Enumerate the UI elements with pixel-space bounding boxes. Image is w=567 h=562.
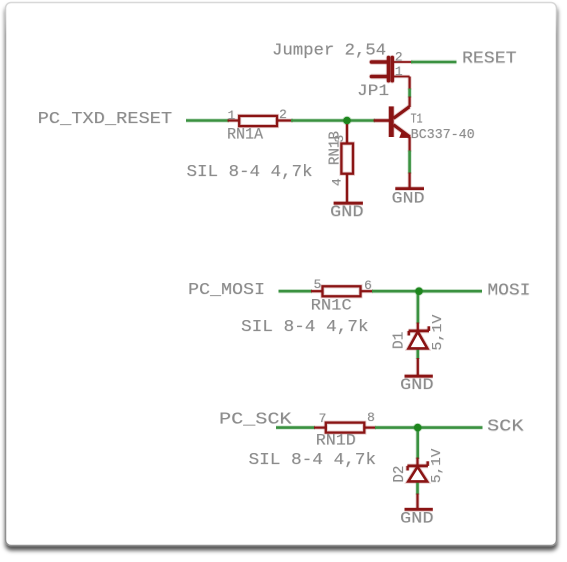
svg-text:7: 7 (319, 411, 327, 426)
svg-text:2: 2 (279, 107, 287, 122)
svg-text:SIL 8-4 4,7k: SIL 8-4 4,7k (241, 318, 369, 337)
svg-text:6: 6 (364, 278, 372, 293)
svg-text:PC_MOSI: PC_MOSI (188, 281, 265, 300)
svg-text:1: 1 (228, 108, 236, 123)
svg-text:5,1V: 5,1V (429, 448, 445, 483)
svg-text:SCK: SCK (487, 418, 524, 437)
svg-text:D2: D2 (391, 466, 408, 483)
svg-text:RN1A: RN1A (227, 126, 264, 144)
svg-text:RN1C: RN1C (311, 297, 352, 315)
svg-text:SIL 8-4 4,7k: SIL 8-4 4,7k (187, 163, 313, 182)
svg-text:5: 5 (314, 277, 322, 292)
svg-text:2: 2 (395, 50, 403, 65)
svg-text:MOSI: MOSI (487, 282, 530, 301)
svg-text:1: 1 (395, 64, 403, 79)
svg-text:RESET: RESET (462, 50, 517, 69)
svg-text:GND: GND (400, 376, 434, 394)
svg-text:GND: GND (392, 190, 425, 208)
svg-text:3: 3 (332, 135, 347, 143)
svg-text:RN1D: RN1D (316, 431, 356, 449)
svg-text:JP1: JP1 (357, 82, 389, 100)
svg-text:D1: D1 (391, 332, 408, 350)
svg-text:4: 4 (330, 178, 345, 186)
svg-text:5,1V: 5,1V (430, 314, 446, 351)
svg-text:SIL 8-4 4,7k: SIL 8-4 4,7k (249, 451, 377, 470)
svg-text:PC_SCK: PC_SCK (219, 410, 292, 429)
svg-text:GND: GND (400, 509, 434, 527)
svg-text:PC_TXD_RESET: PC_TXD_RESET (38, 110, 173, 129)
svg-text:BC337-40: BC337-40 (411, 127, 475, 143)
svg-text:T1: T1 (411, 111, 423, 127)
svg-text:GND: GND (330, 203, 364, 221)
svg-text:Jumper 2,54: Jumper 2,54 (272, 41, 386, 60)
svg-text:8: 8 (367, 410, 375, 425)
